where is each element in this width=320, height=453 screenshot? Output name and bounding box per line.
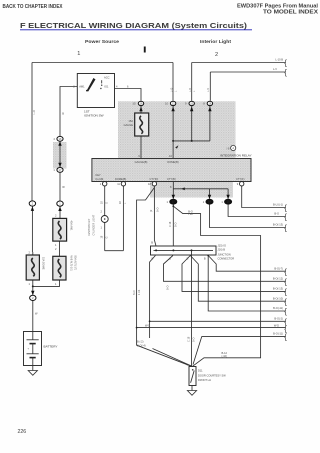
svg-text:D11: D11 — [198, 369, 203, 373]
svg-text:IGNITION SW: IGNITION SW — [84, 114, 104, 118]
svg-text:A: A — [232, 146, 234, 150]
svg-text:BATTERY: BATTERY — [44, 345, 58, 349]
junction dots on dome line — [172, 140, 174, 142]
wire B-O lower exit with switch diagonal — [193, 336, 286, 364]
connector oval 2 on battery column — [29, 201, 35, 211]
wire top right L-10 line — [192, 63, 286, 101]
svg-text:L: L — [193, 90, 196, 92]
svg-text:{: { — [284, 59, 287, 68]
svg-text:B-O(-2): B-O(-2) — [274, 317, 283, 321]
svg-text:11: 11 — [117, 182, 120, 186]
wire relay pin CTY(D) down to junction connector — [154, 186, 156, 246]
wire top feed from battery column to ignition column — [32, 63, 173, 101]
svg-text:18: 18 — [100, 201, 103, 204]
black connector 19 — [224, 199, 232, 205]
svg-text:G: G — [106, 237, 109, 239]
svg-text:G: G — [106, 202, 109, 204]
svg-text:C 18: C 18 — [188, 336, 191, 342]
wire junction pin 1 to left drop — [150, 256, 156, 339]
hatch shading left connector pair — [53, 142, 67, 169]
wire junction pin 2 staircase — [164, 256, 286, 282]
svg-text:L-O: L-O — [33, 110, 36, 114]
left connector pair lower oval — [53, 163, 63, 173]
svg-text:{: { — [284, 278, 287, 287]
svg-text:2: 2 — [215, 52, 218, 58]
wire between AM1 fuse and ALT fuse — [59, 241, 61, 256]
svg-text:1 C4: 1 C4 — [138, 289, 141, 295]
wire relay pin 8 horizontal net — [173, 182, 228, 199]
wire gauge fuse top — [140, 106, 142, 113]
AM1 fuse 40A — [53, 218, 67, 241]
wire door switch to ground — [191, 386, 193, 391]
svg-text:{: { — [284, 213, 287, 222]
svg-text:B-O: B-O — [174, 223, 177, 228]
svg-text:B-O(-11): B-O(-11) — [273, 306, 283, 310]
relay bottom pin CTY(D) — [152, 182, 156, 186]
connector oval 16 (ignition to gauge fuse) — [132, 101, 143, 111]
black connector 14 — [206, 199, 214, 205]
svg-text:ACC: ACC — [104, 75, 110, 79]
ignition switch ACC contact — [101, 80, 103, 83]
wire relay pin DOME to key light box right — [122, 186, 124, 251]
wire ignition IG1 to gauge fuse connector — [115, 89, 142, 101]
svg-text:L: L — [175, 90, 178, 92]
svg-text:1: 1 — [29, 282, 31, 286]
wire black connector 14 to B-O exit — [210, 205, 286, 228]
junction dots lower fan — [149, 320, 151, 322]
svg-text:226: 226 — [18, 429, 27, 435]
svg-text:15A DOME: 15A DOME — [42, 257, 45, 270]
svg-text:80A ALT(-17): 80A ALT(-17) — [74, 256, 77, 271]
integration relay box — [92, 159, 251, 182]
wire battery column vertical — [31, 63, 33, 253]
svg-text:AM1: AM1 — [79, 85, 85, 89]
svg-text:+: + — [28, 348, 30, 351]
svg-text:L-V: L-V — [273, 67, 277, 71]
column marker tick — [144, 47, 146, 53]
door courtesy switch D11 — [189, 367, 196, 386]
svg-text:1: 1 — [77, 51, 80, 57]
svg-text:FRONT LH: FRONT LH — [198, 378, 211, 382]
svg-text:J16) B: J16) B — [218, 248, 226, 252]
svg-text:INTEGRATION RELAY: INTEGRATION RELAY — [220, 153, 252, 157]
svg-text:IG1: IG1 — [104, 85, 109, 89]
svg-text:B-O(-12): B-O(-12) — [273, 277, 283, 281]
svg-text:B-O(-7): B-O(-7) — [274, 266, 283, 270]
wire from reference label to door switch — [153, 349, 193, 367]
svg-text:1: 1 — [55, 243, 57, 247]
svg-text:1: 1 — [55, 282, 57, 286]
svg-text:J15) IG: J15) IG — [218, 244, 227, 248]
arrow into battery connector — [31, 291, 34, 295]
arrows into black connectors — [172, 195, 175, 199]
svg-text:W-B ALT(-10): W-B ALT(-10) — [69, 256, 72, 271]
svg-text:I 18: I 18 — [188, 212, 193, 216]
connector oval dome 1 — [165, 101, 176, 111]
key cylinder light lower edge — [105, 250, 124, 252]
svg-text:W-D: W-D — [274, 323, 279, 327]
svg-text:B-O(-13): B-O(-13) — [273, 223, 283, 227]
wire junction pin 3 staircase left — [182, 256, 286, 292]
svg-text:CYLINDER LIGHT: CYLINDER LIGHT — [92, 214, 95, 235]
svg-text:L-V: L-V — [207, 88, 210, 92]
ground symbol door switch — [187, 391, 196, 396]
svg-text:GAUGE(B): GAUGE(B) — [135, 160, 148, 164]
wire gauge fuse to relay pin 6 — [140, 136, 142, 159]
svg-text:9: 9 — [237, 182, 239, 186]
svg-text:Power Source: Power Source — [85, 39, 119, 44]
svg-text:18: 18 — [119, 201, 122, 204]
svg-text:1: 1 — [203, 200, 205, 204]
svg-text:6: 6 — [127, 85, 129, 89]
wire center vertical to door switch — [191, 250, 193, 366]
hatch shading main junction block area — [118, 101, 236, 158]
ignition switch SW1 box — [77, 74, 114, 108]
connector oval dome 3 — [203, 101, 212, 111]
svg-text:{: { — [284, 307, 287, 316]
svg-text:B-O: B-O — [133, 291, 136, 296]
svg-text:B-LU(-1): B-LU(-1) — [273, 203, 283, 207]
svg-text:IGNITION KEY: IGNITION KEY — [88, 218, 91, 235]
wire junction pin 4 staircase right — [208, 256, 285, 272]
svg-text:{: { — [284, 288, 287, 297]
black connector 17 — [169, 199, 177, 205]
junction dot fuse bus — [32, 285, 34, 287]
wire relay pin KEY ILLUM to key cylinder light — [104, 186, 106, 251]
svg-text:1: 1 — [221, 200, 223, 204]
ALT fuse 80A — [53, 256, 66, 280]
svg-text:L-B: L-B — [189, 88, 192, 92]
wire W-D exit from branch vertical — [137, 327, 286, 329]
direction arrow on dome drop — [175, 145, 178, 148]
wire left drop branch to B-O exit — [150, 320, 286, 322]
wire black connector 19 to B-O exit — [228, 205, 285, 217]
svg-text:B: B — [151, 241, 153, 245]
svg-text:{: { — [284, 204, 287, 213]
svg-text:B: B — [204, 257, 206, 261]
svg-text:B-O: B-O — [157, 208, 160, 213]
svg-text:B-O(-10): B-O(-10) — [273, 296, 283, 300]
svg-text:{: { — [284, 333, 287, 342]
svg-text:B-O(-11): B-O(-11) — [273, 332, 283, 336]
ignition switch IG1 contact — [100, 88, 101, 89]
wire relay pin 9 CTY(F) to B-LU exit — [242, 186, 286, 208]
svg-text:2: 2 — [55, 213, 57, 217]
svg-text:W: W — [35, 312, 38, 316]
svg-text:15A: 15A — [128, 119, 133, 123]
svg-text:B (-2): B (-2) — [137, 340, 144, 344]
svg-text:B: B — [169, 257, 171, 261]
svg-text:DOME(B): DOME(B) — [115, 177, 126, 181]
svg-text:GAUGE: GAUGE — [124, 123, 134, 127]
svg-text:2: 2 — [29, 251, 31, 255]
svg-text:CTY(D): CTY(D) — [150, 177, 159, 181]
svg-text:B-O: B-O — [167, 286, 170, 291]
svg-text:L-O: L-O — [170, 88, 173, 92]
relay bottom pin KEY ILLUM — [103, 182, 107, 186]
svg-text:ILLUM.: ILLUM. — [96, 177, 105, 181]
svg-text:B-O(-4): B-O(-4) — [137, 344, 146, 348]
svg-text:CONNECTOR: CONNECTOR — [218, 257, 235, 261]
left connector pair upper oval — [53, 136, 63, 145]
svg-text:{: { — [284, 267, 287, 276]
svg-text:C 18: C 18 — [169, 221, 172, 227]
svg-text:(2: (2 — [150, 209, 153, 212]
svg-text:2: 2 — [101, 209, 103, 213]
hatch shading below relay — [150, 182, 233, 198]
wire top right L-V line — [210, 72, 285, 101]
svg-text:1: 1 — [101, 225, 103, 229]
DOME fuse 15A — [26, 255, 39, 280]
svg-text:B: B — [62, 112, 64, 116]
key cylinder light bulb — [101, 216, 108, 223]
svg-text:KEY: KEY — [96, 173, 101, 177]
wire fuse bottoms to battery bus — [33, 280, 60, 332]
svg-text:18: 18 — [100, 235, 103, 238]
wire junction pin 4 straight drop — [208, 256, 285, 312]
svg-text:B-O: B-O — [193, 338, 196, 343]
relay bottom pin DOME — [121, 182, 125, 186]
wire dome feeds from connectors to junction line — [173, 106, 210, 141]
connector oval 2 battery feed — [30, 295, 36, 300]
title underline — [20, 29, 252, 31]
svg-text:B-O: B-O — [274, 212, 279, 216]
svg-text:W: W — [62, 185, 65, 189]
svg-text:1: 1 — [53, 168, 55, 172]
svg-text:CTY(B): CTY(B) — [167, 177, 176, 181]
svg-text:BACK TO CHAPTER INDEX: BACK TO CHAPTER INDEX — [3, 4, 64, 10]
battery — [24, 332, 58, 366]
svg-text:{: { — [284, 224, 287, 233]
svg-text:B-O(-13): B-O(-13) — [273, 287, 283, 291]
svg-text:{: { — [284, 297, 287, 306]
connector oval dome 2 — [185, 101, 194, 111]
ignition switch lever — [87, 78, 96, 92]
svg-text:B: B — [187, 257, 189, 261]
wire battery to ground — [32, 366, 34, 371]
direction arrow on pin8 net — [181, 187, 185, 190]
svg-text:{: { — [284, 68, 287, 77]
connector oval 1 above AM1 fuse — [57, 201, 63, 211]
junction connector J15/J16 — [151, 246, 217, 255]
gauge fuse F1 15A — [135, 113, 149, 136]
svg-text:TO MODEL INDEX: TO MODEL INDEX — [263, 9, 319, 15]
wire ignition AM1 branch — [60, 87, 77, 219]
svg-text:4: 4 — [53, 137, 55, 141]
wire junction line to relay pin 10 — [172, 141, 174, 159]
junction dot connector 17 branch — [172, 205, 174, 207]
wire black connector 17 to junction connector — [172, 204, 174, 246]
svg-text:DOME(B): DOME(B) — [167, 160, 178, 164]
wire DOME fuse top — [32, 252, 34, 255]
svg-text:W-D: W-D — [145, 323, 150, 327]
svg-text:B: B — [152, 257, 154, 261]
svg-text:2: 2 — [55, 247, 57, 251]
svg-text:JUNCTION: JUNCTION — [218, 253, 231, 257]
wire branch from CTY(D) to lower-left vertical — [137, 188, 192, 367]
svg-text:Interior Light: Interior Light — [200, 39, 232, 44]
svg-text:F ELECTRICAL WIRING DIAGRAM (S: F ELECTRICAL WIRING DIAGRAM (System Circ… — [20, 21, 248, 30]
svg-text:L: L — [124, 202, 127, 204]
svg-text:CTY(F): CTY(F) — [236, 177, 245, 181]
svg-text:1G: 1G — [132, 102, 135, 106]
svg-text:1: 1 — [167, 200, 169, 204]
svg-text:1: 1 — [100, 182, 102, 186]
ground symbol battery — [28, 371, 37, 376]
svg-text:40A AM1: 40A AM1 — [69, 221, 72, 232]
wire junction pin 3 staircase right — [190, 256, 285, 302]
relay bottom pin 9 CTY(F) — [240, 182, 244, 186]
svg-text:(-10): (-10) — [222, 354, 228, 358]
svg-text:L-10 B: L-10 B — [275, 58, 283, 62]
wire loop from connector 17 to door switch — [173, 206, 260, 366]
svg-text:DOOR COURTESY SW: DOOR COURTESY SW — [198, 374, 226, 378]
